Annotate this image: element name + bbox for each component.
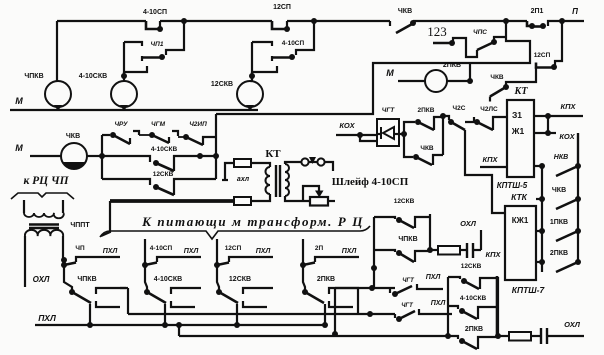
rail pair right	[440, 113, 446, 155]
svg-text:2ПКВ: 2ПКВ	[550, 250, 568, 257]
contact 4-10SP on top bus	[143, 9, 167, 32]
wire group B rail to ChGT1	[373, 254, 375, 288]
svg-text:12СКВ: 12СКВ	[461, 263, 482, 270]
node J2 on top bus	[311, 18, 317, 24]
relay 12SKV coil	[211, 72, 263, 111]
box ChGT diode	[377, 107, 399, 146]
wire top bus seg3	[287, 20, 390, 22]
svg-text:КТК: КТК	[511, 192, 528, 202]
wire OHL stub up	[460, 219, 481, 250]
contact ChKV on top bus	[390, 8, 416, 33]
wire M bus 1	[10, 96, 258, 110]
wire diode out	[399, 131, 407, 137]
contact ChKV rung	[536, 187, 581, 209]
svg-text:12СП: 12СП	[225, 245, 242, 252]
contact 4-10SKV groupC	[448, 295, 498, 319]
transformer ChPPT secondary	[25, 222, 90, 245]
label KPTSh-5	[497, 181, 528, 190]
label KPH right of cap	[485, 250, 501, 259]
svg-text:4-10СКВ: 4-10СКВ	[154, 276, 182, 283]
svg-text:2ПКВ: 2ПКВ	[465, 326, 483, 333]
svg-text:4-10СКВ: 4-10СКВ	[151, 146, 178, 153]
capacitor C1	[460, 243, 481, 258]
svg-text:2ПКВ: 2ПКВ	[418, 107, 435, 114]
svg-text:ЧПКВ: ЧПКВ	[77, 276, 96, 283]
svg-text:КПХ: КПХ	[485, 250, 501, 259]
svg-text:2П1: 2П1	[531, 8, 544, 15]
svg-text:4-10СП: 4-10СП	[282, 40, 305, 47]
brace under label	[100, 226, 370, 239]
cell1 upper link	[120, 288, 128, 314]
cell3 12SP 12SKV	[214, 239, 273, 307]
svg-text:ЧППТ: ЧППТ	[70, 222, 90, 229]
cell4 armature drop	[322, 304, 328, 328]
svg-text:КЖ1: КЖ1	[512, 216, 529, 225]
relay 4-10SKV coil	[79, 72, 137, 111]
svg-text:З1: З1	[512, 110, 522, 120]
svg-text:ЧГТ: ЧГТ	[402, 278, 415, 284]
svg-text:12СП: 12СП	[534, 52, 551, 59]
box KZh1	[505, 206, 536, 280]
svg-text:М: М	[386, 68, 394, 78]
svg-text:П: П	[572, 7, 578, 16]
svg-text:4-10СКВ: 4-10СКВ	[79, 73, 107, 80]
svg-text:ОХЛ: ОХЛ	[460, 219, 477, 228]
node J3 on top bus	[503, 18, 509, 24]
contact Ch2S	[443, 105, 466, 130]
node J1 on top bus	[181, 18, 187, 24]
plug pair	[301, 157, 333, 171]
svg-text:ЧКВ: ЧКВ	[552, 187, 566, 194]
relay 2PKV coil	[386, 62, 461, 92]
label k RTs ChP	[23, 175, 69, 187]
wire drop to ChPKV relay	[56, 21, 58, 81]
cell2 armature drop	[162, 304, 168, 328]
label PHL bus	[38, 313, 56, 323]
svg-text:КПХ: КПХ	[560, 102, 576, 111]
label KPH mid	[480, 155, 507, 167]
svg-text:Ж1: Ж1	[511, 126, 525, 136]
wire long y314	[128, 311, 395, 317]
stub PHL 1	[417, 274, 443, 289]
thick feed bus	[101, 201, 234, 236]
contact 12SP on top bus	[272, 4, 291, 32]
svg-text:к РЦ ЧП: к РЦ ЧП	[23, 175, 69, 187]
svg-text:ПХЛ: ПХЛ	[431, 300, 446, 307]
svg-text:4-10СКВ: 4-10СКВ	[460, 295, 487, 302]
wire Z1 to KZh1	[0, 0, 1, 1]
contact ChGT1	[390, 278, 415, 297]
svg-text:12СП: 12СП	[273, 4, 291, 11]
contact 1PKV rung	[536, 219, 581, 241]
svg-text:ПХЛ: ПХЛ	[426, 274, 441, 281]
wire box right pin1 KPH	[534, 102, 583, 119]
stub PHL 2	[419, 300, 452, 314]
label k pitayushchim	[141, 214, 364, 229]
svg-text:ЧПКВ: ЧПКВ	[398, 236, 417, 243]
svg-text:КОХ: КОХ	[559, 132, 575, 141]
svg-text:4-10СП: 4-10СП	[150, 245, 173, 252]
terminal P on top bus	[559, 7, 584, 24]
contact 4-10SKV middle branch	[102, 146, 216, 171]
svg-text:ПХЛ: ПХЛ	[184, 248, 199, 255]
svg-text:К питающи м трансформ. Р Ц: К питающи м трансформ. Р Ц	[141, 214, 364, 229]
box Z1 Zh1	[507, 100, 534, 177]
svg-text:КОХ: КОХ	[339, 121, 355, 130]
relay ChKV indicator	[61, 133, 87, 169]
svg-text:12СКВ: 12СКВ	[394, 198, 415, 205]
contact 4-10SP branch2	[249, 21, 314, 79]
wire box right pin2 KOH	[534, 116, 576, 141]
rail group A right	[215, 114, 217, 179]
contact ChPKV groupB	[374, 236, 430, 262]
rail ladder left	[541, 166, 543, 272]
wire KOH rail down	[577, 133, 579, 166]
svg-text:ЧГТ: ЧГТ	[382, 107, 396, 114]
svg-text:2ПКВ: 2ПКВ	[317, 276, 335, 283]
brace over ChPPT	[11, 193, 74, 199]
cell4 2P 2PKV	[300, 239, 359, 307]
rail ladder right	[577, 133, 579, 262]
transformer ChPPT primary	[24, 200, 64, 218]
contact 12SKV bottom branch	[102, 171, 216, 195]
wire top bus seg4	[413, 20, 527, 22]
svg-text:ахл: ахл	[237, 176, 250, 183]
wire ChKV to rail	[87, 155, 102, 157]
svg-text:12СКВ: 12СКВ	[153, 171, 174, 178]
svg-text:КПТШ-5: КПТШ-5	[497, 181, 528, 190]
node A2	[197, 153, 219, 159]
resistor R1	[430, 246, 460, 255]
svg-text:Ч2ЛС: Ч2ЛС	[480, 106, 498, 113]
cell1 armature drop	[87, 304, 93, 328]
svg-text:123: 123	[427, 24, 447, 39]
arrester box	[303, 186, 335, 206]
svg-text:ЧП1: ЧП1	[151, 41, 164, 48]
contact NKV rung	[534, 154, 581, 176]
svg-text:НКВ: НКВ	[554, 154, 568, 161]
svg-text:ЧПС: ЧПС	[473, 29, 487, 36]
node A1	[99, 153, 105, 159]
wire 12SP to ChKV	[506, 67, 536, 87]
svg-text:2ПКВ: 2ПКВ	[443, 62, 461, 69]
node B out	[427, 247, 433, 253]
resistor R ahl	[222, 159, 251, 183]
svg-text:Шлейф 4-10СП: Шлейф 4-10СП	[332, 176, 409, 188]
svg-text:ЧП: ЧП	[75, 245, 85, 252]
label KPTSh-7	[512, 285, 546, 295]
svg-text:ЧКВ: ЧКВ	[66, 133, 80, 140]
rail group B left	[371, 217, 377, 271]
node C right	[495, 333, 501, 339]
svg-text:ЧПКВ: ЧПКВ	[24, 73, 43, 80]
svg-text:КПХ: КПХ	[482, 155, 498, 164]
contact ChKV parallel	[404, 134, 443, 165]
contact 2P1 on top bus	[527, 8, 562, 29]
relay ChPKV coil	[24, 73, 71, 111]
contact ChKV upper right	[490, 74, 509, 102]
transformer ChPPT core	[29, 225, 59, 229]
svg-text:ЧГТ: ЧГТ	[401, 303, 414, 309]
svg-text:КТ: КТ	[265, 148, 281, 160]
svg-text:12СКВ: 12СКВ	[229, 276, 251, 283]
svg-text:КПТШ-7: КПТШ-7	[512, 285, 546, 295]
contact 12SKV groupB	[374, 198, 430, 228]
transformer KT left winding	[251, 163, 270, 201]
contact 12SKV groupC	[448, 263, 498, 289]
cell1 ChP ChPKV	[61, 245, 126, 307]
svg-text:ОХЛ: ОХЛ	[33, 275, 50, 284]
wire rail to 2PKV loop	[216, 21, 530, 114]
svg-text:КТ: КТ	[514, 86, 529, 97]
label KOH left	[339, 121, 355, 130]
contact ChPS	[433, 29, 506, 57]
wire y288 link	[332, 285, 395, 337]
wire PHL bus	[35, 324, 325, 326]
contact 2PKV groupC	[448, 326, 498, 349]
contact ChGT2	[395, 303, 415, 322]
cell3 armature drop	[234, 304, 240, 328]
rail group A left	[101, 135, 103, 179]
wire M bus 2	[15, 143, 61, 156]
transformer KT right winding	[285, 162, 310, 201]
transformer KT core	[276, 165, 280, 197]
svg-text:ОХЛ: ОХЛ	[564, 320, 581, 329]
contact ChP1 branch	[121, 21, 184, 79]
contact Ch2IP	[172, 121, 216, 145]
svg-text:Ч2С: Ч2С	[453, 105, 466, 112]
svg-text:ПХЛ: ПХЛ	[103, 248, 118, 255]
svg-text:ЧКВ: ЧКВ	[398, 8, 412, 15]
node C left	[445, 333, 451, 339]
label KT right	[514, 86, 529, 97]
contact 2PKV parallel	[404, 107, 443, 134]
cell2 4-10SP 4-10SKV	[142, 239, 201, 307]
contact Ch2LS	[465, 106, 507, 130]
svg-text:М: М	[15, 96, 23, 106]
svg-text:Ч2ИП: Ч2ИП	[189, 121, 207, 128]
svg-text:ЧРУ: ЧРУ	[114, 121, 128, 128]
rail group C left	[447, 277, 449, 336]
capacitor C2	[531, 320, 584, 344]
svg-text:12СКВ: 12СКВ	[211, 81, 233, 88]
contact 12SP right	[534, 21, 562, 70]
rail group C right lower	[496, 276, 499, 336]
wire KOH lead	[336, 132, 377, 141]
label KTK	[511, 192, 528, 202]
contact ChRU	[102, 121, 130, 144]
svg-text:2П: 2П	[315, 245, 324, 252]
label KT	[265, 148, 281, 160]
wire long y336	[176, 322, 448, 336]
svg-text:М: М	[15, 143, 23, 153]
svg-text:1ПКВ: 1ПКВ	[550, 219, 568, 226]
contact ChGM	[133, 121, 169, 143]
rail group B right	[429, 214, 431, 250]
resistor R feed	[234, 197, 251, 205]
wire ChPPT to cell1	[61, 245, 67, 263]
wire OHL stub left	[25, 245, 50, 287]
svg-text:ЧКВ: ЧКВ	[490, 74, 504, 81]
wire top bus left segment	[57, 20, 146, 22]
resistor R2	[498, 332, 531, 341]
wire 2PKV to junction	[447, 63, 473, 84]
svg-text:4-10СП: 4-10СП	[143, 9, 167, 16]
label shleyf	[332, 176, 409, 188]
svg-text:ПХЛ: ПХЛ	[38, 313, 56, 323]
svg-text:ЧКВ: ЧКВ	[420, 145, 434, 152]
label 123	[427, 24, 447, 39]
svg-text:ПХЛ: ПХЛ	[256, 248, 271, 255]
svg-text:ЧГМ: ЧГМ	[151, 121, 166, 128]
rail group C right	[497, 277, 499, 336]
wire Ch2S rail down	[465, 130, 505, 213]
wire top bus seg2	[160, 20, 272, 22]
contact 2PKV rung	[536, 250, 581, 272]
svg-text:ПХЛ: ПХЛ	[342, 248, 357, 255]
